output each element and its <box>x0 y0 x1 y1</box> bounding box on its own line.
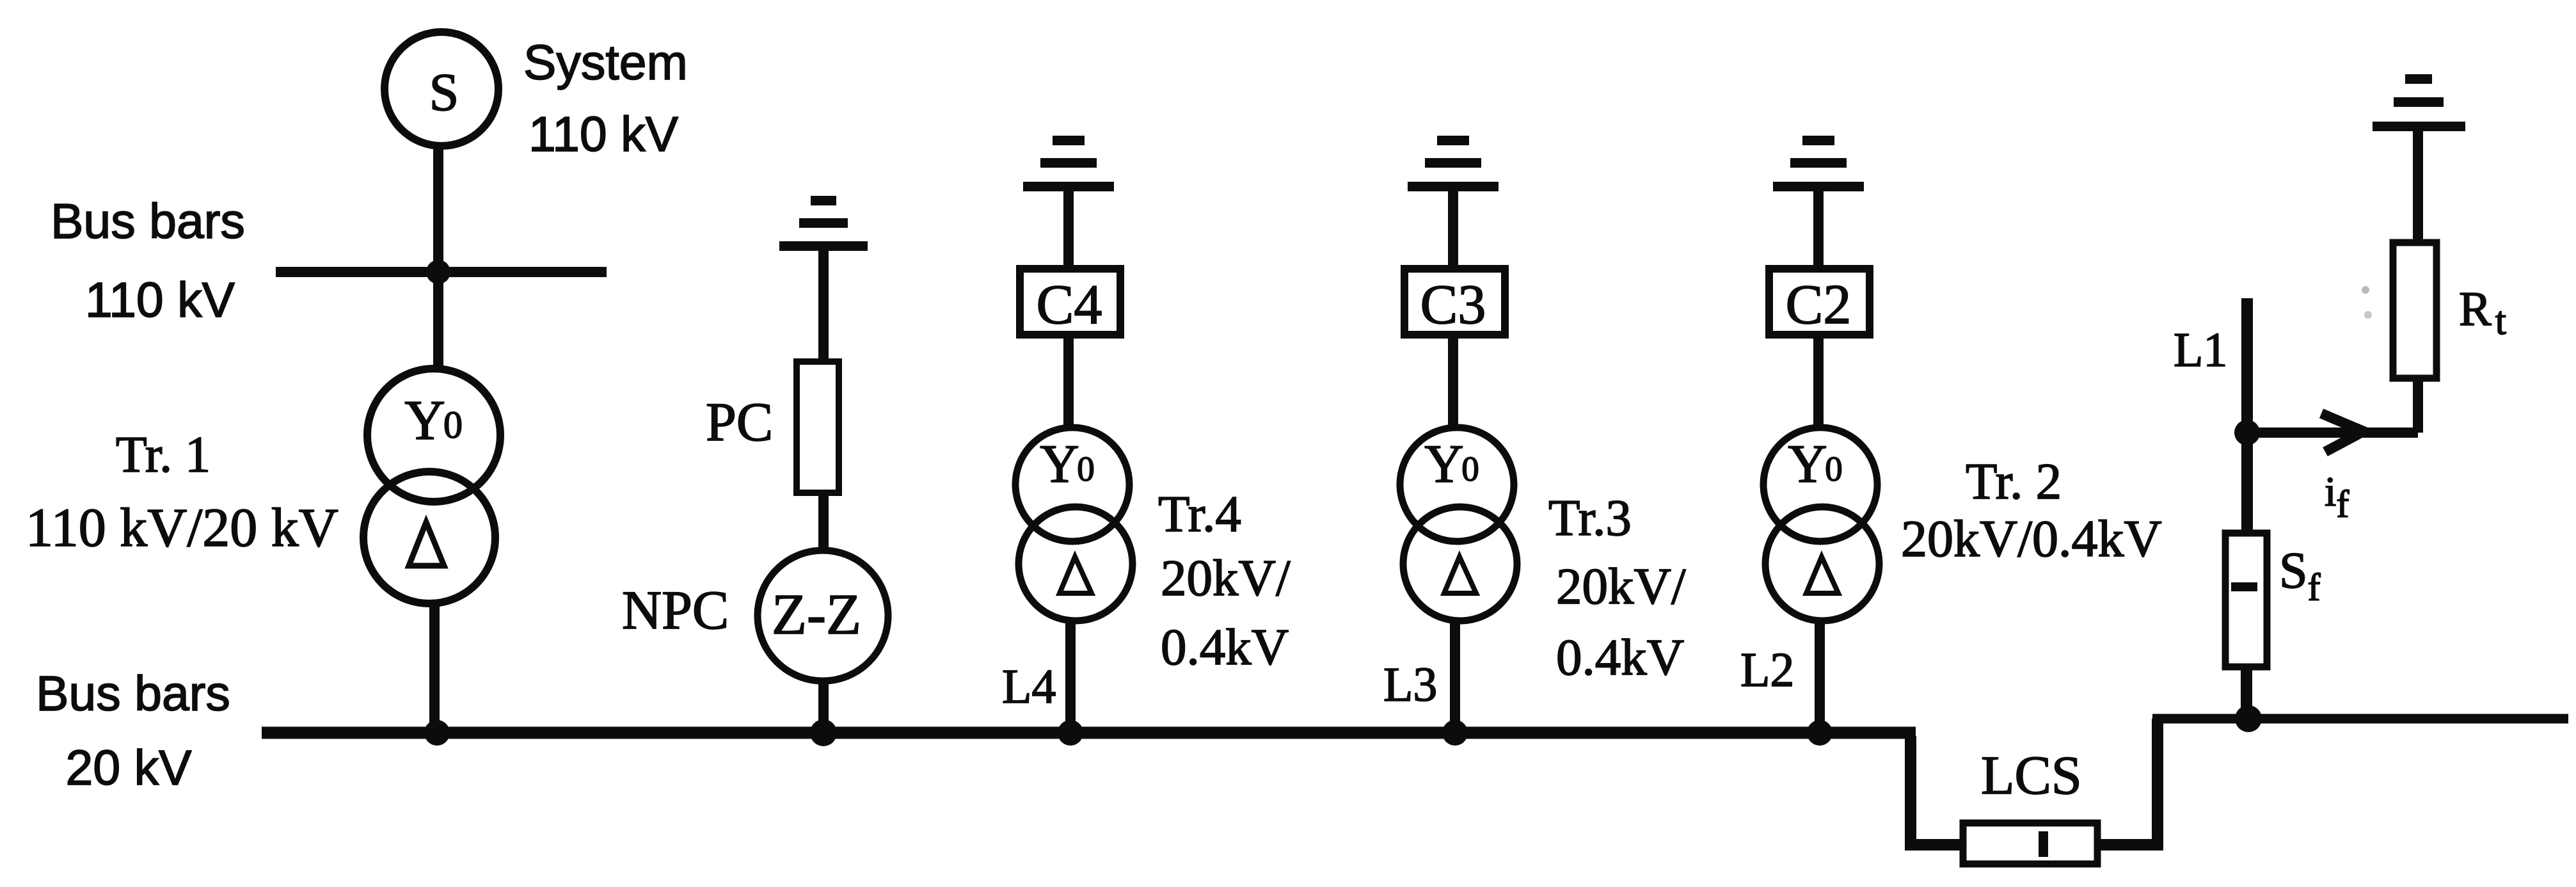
svg-text:110 kV: 110 kV <box>85 273 235 328</box>
svg-text:Y: Y <box>1040 434 1079 494</box>
svg-text:0: 0 <box>443 404 463 446</box>
svg-text:20 kV: 20 kV <box>66 740 193 795</box>
svg-text:L2: L2 <box>1740 643 1794 697</box>
svg-text:C4: C4 <box>1037 274 1102 336</box>
svg-text:Y: Y <box>404 390 445 452</box>
svg-text:Y: Y <box>1424 434 1463 494</box>
svg-text:Tr.4: Tr.4 <box>1158 485 1241 543</box>
svg-text:Tr. 2: Tr. 2 <box>1966 452 2062 510</box>
svg-text:C3: C3 <box>1420 274 1486 336</box>
svg-text:110 kV: 110 kV <box>529 107 679 162</box>
svg-text:System: System <box>523 35 688 90</box>
svg-text:0: 0 <box>1825 449 1843 488</box>
svg-text:Z-Z: Z-Z <box>772 583 861 646</box>
svg-text:Tr.3: Tr.3 <box>1548 489 1632 547</box>
svg-text:20kV/: 20kV/ <box>1556 557 1686 615</box>
svg-text:L3: L3 <box>1383 658 1437 712</box>
svg-text:S: S <box>429 63 459 122</box>
svg-text:PC: PC <box>706 391 773 452</box>
svg-text:110 kV/20 kV: 110 kV/20 kV <box>26 497 338 558</box>
svg-text:C2: C2 <box>1786 274 1852 336</box>
svg-text:0: 0 <box>1461 449 1479 488</box>
svg-text:NPC: NPC <box>622 579 729 641</box>
svg-text:20kV/: 20kV/ <box>1161 549 1291 607</box>
svg-text:L4: L4 <box>1002 660 1056 714</box>
svg-text:Tr. 1: Tr. 1 <box>116 427 211 483</box>
svg-text:Y: Y <box>1788 434 1827 494</box>
svg-text:20kV/0.4kV: 20kV/0.4kV <box>1901 509 2162 568</box>
svg-text:Bus bars: Bus bars <box>36 666 230 721</box>
svg-text:0.4kV: 0.4kV <box>1556 628 1684 686</box>
svg-text:0: 0 <box>1077 449 1095 488</box>
svg-text:LCS: LCS <box>1981 744 2082 806</box>
svg-text:L1: L1 <box>2174 323 2227 377</box>
svg-text:0.4kV: 0.4kV <box>1161 618 1289 676</box>
svg-text:Bus bars: Bus bars <box>51 194 245 249</box>
